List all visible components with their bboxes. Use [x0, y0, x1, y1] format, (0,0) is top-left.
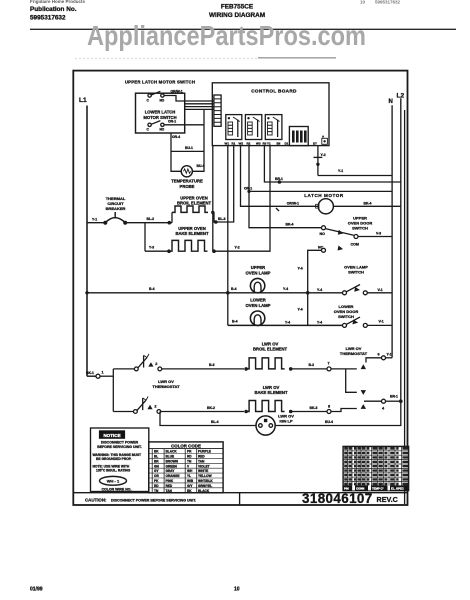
svg-text:BAKE ELEMENT: BAKE ELEMENT	[254, 390, 287, 395]
svg-text:D1: D1	[285, 141, 289, 145]
svg-text:Y-3: Y-3	[149, 246, 154, 250]
svg-text:W/B: W/B	[187, 479, 194, 483]
svg-text:Y-4: Y-4	[285, 320, 290, 324]
svg-text:LOWER: LOWER	[250, 298, 266, 303]
svg-text:RED: RED	[198, 455, 205, 459]
lower oven door switch	[317, 304, 392, 327]
svg-text:B-4: B-4	[232, 319, 238, 323]
svg-text:BL: BL	[154, 455, 158, 459]
connector arrow up a	[361, 364, 366, 369]
svg-text:TAN: TAN	[198, 459, 205, 463]
svg-text:BK-4: BK-4	[364, 201, 372, 205]
svg-text:OR/W-1: OR/W-1	[171, 90, 183, 94]
svg-text:YELLOW: YELLOW	[198, 474, 212, 478]
svg-text:BR: BR	[154, 459, 159, 463]
svg-text:W1: W1	[225, 141, 230, 145]
wire probe right drop	[192, 109, 204, 171]
svg-text:PR: PR	[187, 450, 192, 454]
svg-text:NO: NO	[160, 99, 165, 103]
svg-text:10 5995317632: 10 5995317632	[360, 0, 401, 5]
svg-text:G/Y: G/Y	[187, 484, 193, 488]
svg-text:Frigidaire Home Products: Frigidaire Home Products	[30, 0, 86, 4]
relay K3	[265, 115, 282, 140]
wire connector pin drop to bake	[212, 146, 214, 252]
svg-text:BROIL ELEMENT: BROIL ELEMENT	[253, 347, 288, 352]
color code table	[149, 442, 223, 493]
latch box inner text	[143, 110, 176, 121]
wire NC drop	[308, 250, 322, 325]
svg-text:BK-3: BK-3	[310, 406, 318, 410]
svg-text:PROBE: PROBE	[180, 184, 195, 189]
svg-text:BR-1: BR-1	[275, 177, 283, 181]
svg-text:6: 6	[378, 352, 380, 356]
svg-text:SWITCH: SWITCH	[352, 226, 368, 231]
svg-text:UPPER: UPPER	[251, 265, 265, 270]
svg-text:BROWN: BROWN	[166, 459, 179, 463]
svg-text:Y-1: Y-1	[338, 169, 343, 173]
junction dot bake right	[212, 249, 216, 253]
wire latch to connector 3	[185, 106, 214, 108]
svg-text:2: 2	[154, 405, 156, 409]
svg-text:PK: PK	[154, 479, 159, 483]
wire relay pin drop R1 (broil return)	[216, 146, 234, 222]
wire bake drop	[144, 223, 146, 252]
wire broil riser	[171, 212, 173, 222]
svg-text:B8: B8	[277, 141, 281, 145]
latch switch box	[136, 93, 185, 133]
upper oven bake element	[169, 226, 209, 251]
wire L2 bus	[400, 98, 402, 401]
pin A	[322, 138, 328, 144]
upper oven broil element	[172, 196, 212, 213]
svg-text:COLOR CODE: COLOR CODE	[171, 443, 201, 448]
connector arrow down b	[361, 390, 366, 395]
switch S1 upper latch	[147, 91, 165, 102]
svg-text:THERMOSTAT: THERMOSTAT	[152, 384, 180, 389]
header publication number	[30, 0, 86, 21]
lwr ov thermostat (left)	[152, 379, 180, 389]
upper oven lamp	[231, 265, 288, 293]
svg-text:NO: NO	[160, 128, 165, 132]
svg-text:SWITCH: SWITCH	[348, 270, 364, 275]
svg-text:5995317632: 5995317632	[30, 15, 66, 22]
svg-text:Y-2: Y-2	[321, 153, 326, 157]
latch motor	[276, 193, 401, 214]
svg-text:BE GROUNDED PROP.: BE GROUNDED PROP.	[96, 457, 132, 461]
svg-text:BR-1: BR-1	[390, 395, 398, 399]
svg-text:BK-1: BK-1	[86, 371, 94, 375]
svg-text:10: 10	[234, 587, 240, 593]
relay K1	[226, 115, 242, 140]
thermal circuit breaker	[87, 196, 127, 225]
junction dot bake left	[167, 249, 171, 253]
svg-text:BK-4: BK-4	[286, 222, 294, 226]
lower oven lamp	[232, 298, 290, 326]
thermostat switch lower pole	[113, 397, 244, 414]
wire L1 bus	[86, 106, 88, 377]
svg-text:OR/W-1: OR/W-1	[287, 201, 299, 205]
svg-text:COM: COM	[351, 242, 359, 246]
svg-text:BK-2: BK-2	[207, 406, 215, 410]
wire probe link	[171, 150, 204, 152]
wire relay pin drop R2 (door switch NO)	[249, 146, 321, 228]
svg-text:DISCONNECT POWER BEFORE SERVIC: DISCONNECT POWER BEFORE SERVICING UNIT.	[111, 498, 196, 502]
wire board to N	[317, 164, 319, 175]
svg-text:B-2: B-2	[309, 363, 315, 367]
svg-text:NOTICE: NOTICE	[103, 433, 120, 438]
svg-text:OR: OR	[154, 474, 159, 478]
svg-text:BLUE: BLUE	[166, 455, 175, 459]
svg-text:WIRING DIAGRAM: WIRING DIAGRAM	[209, 12, 265, 19]
svg-text:WH - 1: WH - 1	[107, 479, 120, 484]
frame right inner line	[404, 110, 406, 504]
svg-text:WHT/BLK: WHT/BLK	[198, 479, 213, 483]
control board box	[212, 83, 329, 146]
upper oven door switch	[286, 216, 393, 253]
terminal 8	[327, 404, 357, 413]
svg-text:BAKE ELEMENT: BAKE ELEMENT	[175, 231, 208, 236]
junction dot lamp drop	[226, 291, 230, 295]
svg-text:B-3: B-3	[209, 363, 215, 367]
svg-text:V-1: V-1	[378, 288, 383, 292]
wire relay K3 to L2 (BR-1)	[264, 146, 400, 182]
wire N bus	[391, 105, 393, 358]
svg-text:Y-1: Y-1	[92, 218, 97, 222]
svg-text:PURPLE: PURPLE	[198, 450, 211, 454]
svg-text:WH: WH	[187, 469, 193, 473]
wire broil right step	[214, 212, 216, 222]
svg-text:V-3: V-3	[376, 232, 381, 236]
svg-text:YL: YL	[187, 474, 191, 478]
svg-text:L1: L1	[79, 97, 87, 104]
wire OR-1 to N	[249, 190, 392, 192]
svg-text:RED: RED	[166, 484, 173, 488]
svg-text:COLOR WIRE NO.: COLOR WIRE NO.	[102, 488, 132, 492]
svg-text:Y-2: Y-2	[235, 246, 240, 250]
junction dot L1 lamp	[85, 291, 88, 294]
svg-text:Y-4: Y-4	[298, 308, 303, 312]
svg-text:Y-4: Y-4	[298, 267, 303, 271]
svg-text:THERMOSTAT: THERMOSTAT	[340, 351, 368, 356]
svg-text:BREAKER: BREAKER	[106, 206, 126, 211]
svg-text:BU-4: BU-4	[325, 420, 333, 424]
lwr ov thermostat (right)	[340, 346, 368, 356]
svg-text:REV.C: REV.C	[377, 495, 398, 504]
svg-text:OR-1: OR-1	[168, 120, 176, 124]
svg-text:EL. SPEC: EL. SPEC	[391, 487, 404, 491]
svg-text:B-4: B-4	[231, 287, 237, 291]
header model title	[209, 0, 401, 19]
header rule	[30, 28, 456, 30]
svg-text:318046107: 318046107	[302, 491, 373, 506]
svg-text:Y-4: Y-4	[283, 287, 288, 291]
svg-text:BL-4: BL-4	[211, 420, 219, 424]
svg-text:PINK: PINK	[166, 479, 174, 483]
junction dot BR-1	[278, 180, 282, 184]
svg-text:GREEN: GREEN	[166, 464, 178, 468]
svg-text:BROIL ELEMENT: BROIL ELEMENT	[177, 201, 212, 206]
svg-text:OR-4: OR-4	[172, 135, 180, 139]
svg-text:BL-3: BL-3	[218, 217, 226, 221]
svg-text:D7: D7	[313, 141, 317, 145]
terminal block TB1	[289, 127, 308, 146]
svg-text:Y-4: Y-4	[317, 320, 322, 324]
wire thermostat bypass	[346, 369, 357, 392]
svg-text:Y-1: Y-1	[387, 352, 392, 356]
wire latch to connector 1	[164, 96, 214, 102]
svg-text:W3: W3	[256, 141, 261, 145]
svg-text:VIOLET: VIOLET	[198, 464, 210, 468]
svg-text:8: 8	[328, 404, 330, 408]
terminal 7	[327, 362, 357, 371]
faint ruled line	[75, 58, 258, 60]
svg-text:GRAY: GRAY	[166, 469, 176, 473]
thermostat switch upper pole	[113, 354, 244, 371]
svg-text:NO: NO	[320, 232, 326, 236]
lwr ov ign lp	[256, 414, 294, 436]
svg-text:Y1: Y1	[267, 141, 271, 145]
svg-text:105°C INSUL. RATING: 105°C INSUL. RATING	[96, 469, 131, 473]
wire lower latch NO right	[164, 124, 204, 126]
connector arrow up c	[361, 404, 366, 409]
svg-text:OVEN LAMP: OVEN LAMP	[246, 271, 271, 276]
svg-text:TN: TN	[187, 459, 192, 463]
svg-text:BL-2: BL-2	[147, 217, 155, 221]
svg-text:ORANGE: ORANGE	[166, 474, 180, 478]
caution bar	[73, 493, 407, 505]
svg-text:BU-1: BU-1	[185, 146, 193, 150]
svg-text:2: 2	[155, 362, 157, 366]
svg-text:1: 1	[102, 371, 104, 375]
svg-text:R2: R2	[247, 141, 251, 145]
terminal 6	[366, 352, 392, 362]
svg-text:7: 7	[328, 362, 330, 366]
wire latch to connector 2	[185, 103, 214, 105]
wire bake row left	[145, 250, 169, 252]
varistor RV1	[314, 146, 326, 166]
svg-text:CAUTION:: CAUTION:	[85, 497, 107, 502]
lwr ov bake element	[244, 385, 327, 413]
svg-text:OR-1: OR-1	[244, 187, 252, 191]
wire igniter feed	[160, 412, 256, 426]
svg-text:SWITCH: SWITCH	[338, 314, 354, 319]
svg-text:AppliancePartsPros.com: AppliancePartsPros.com	[87, 20, 366, 51]
diagram frame	[73, 71, 407, 505]
svg-text:OVEN LAMP: OVEN LAMP	[246, 303, 271, 308]
svg-text:BEFORE SERVICING UNIT.: BEFORE SERVICING UNIT.	[97, 445, 142, 449]
relay K2	[245, 115, 261, 140]
svg-text:UPPER LATCH MOTOR SWITCH: UPPER LATCH MOTOR SWITCH	[125, 80, 195, 85]
svg-text:BU-4: BU-4	[197, 164, 205, 168]
svg-text:GN: GN	[154, 464, 159, 468]
wire relay pin drop Y1 (bake return)	[214, 146, 270, 252]
svg-text:RD: RD	[154, 484, 159, 488]
wire latch to connector 4	[185, 108, 214, 110]
wire lamp feed row 1	[87, 292, 343, 294]
switch S2 lower latch	[147, 121, 165, 132]
wire L2 igniter return	[275, 401, 401, 425]
oven lamp switch	[317, 265, 392, 295]
notice box	[91, 428, 149, 492]
svg-text:FEB755CE: FEB755CE	[221, 4, 254, 11]
svg-text:V-1: V-1	[379, 319, 384, 323]
junction dot NC row1	[306, 291, 310, 295]
lwr ov broil element	[244, 342, 327, 371]
spec grid table	[343, 446, 409, 490]
svg-text:R1: R1	[232, 141, 236, 145]
junction dot main	[168, 221, 172, 225]
svg-text:GRN/YEL: GRN/YEL	[198, 484, 212, 488]
board pin labels	[225, 134, 326, 145]
wire lamp row 2	[228, 324, 343, 326]
svg-text:WHITE: WHITE	[198, 469, 208, 473]
svg-text:01/99: 01/99	[30, 587, 43, 593]
svg-text:Y-4: Y-4	[317, 288, 322, 292]
svg-text:TEMPERATURE: TEMPERATURE	[171, 179, 203, 184]
wire relay pin drop W1 (lamp feed)	[227, 146, 229, 326]
svg-text:N: N	[389, 99, 393, 105]
junction dot OR-1	[247, 190, 250, 193]
svg-text:LOWER LATCH: LOWER LATCH	[145, 110, 176, 115]
temperature probe	[171, 166, 203, 189]
wire thermostat riser	[112, 369, 114, 412]
svg-text:RD: RD	[187, 455, 192, 459]
svg-text:LATCH MOTOR: LATCH MOTOR	[304, 193, 344, 198]
wire relay pin drop W2 (latch motor)	[241, 146, 318, 207]
connector J1	[214, 95, 221, 126]
svg-text:CONTROL BOARD: CONTROL BOARD	[251, 89, 297, 94]
wire main L1 run	[125, 222, 172, 224]
svg-text:IGN LP: IGN LP	[279, 418, 293, 423]
svg-text:BLACK: BLACK	[166, 450, 178, 454]
svg-text:BK: BK	[154, 450, 159, 454]
svg-text:W2: W2	[239, 141, 244, 145]
wire probe left drop	[171, 133, 181, 171]
terminal 4	[364, 395, 403, 411]
junction dot broil right	[214, 220, 218, 224]
svg-text:Publication No.: Publication No.	[30, 6, 77, 13]
svg-text:B-4: B-4	[149, 287, 155, 291]
svg-text:TEMP C°: TEMP C°	[372, 487, 384, 491]
terminal 1 BK-1	[86, 371, 113, 379]
